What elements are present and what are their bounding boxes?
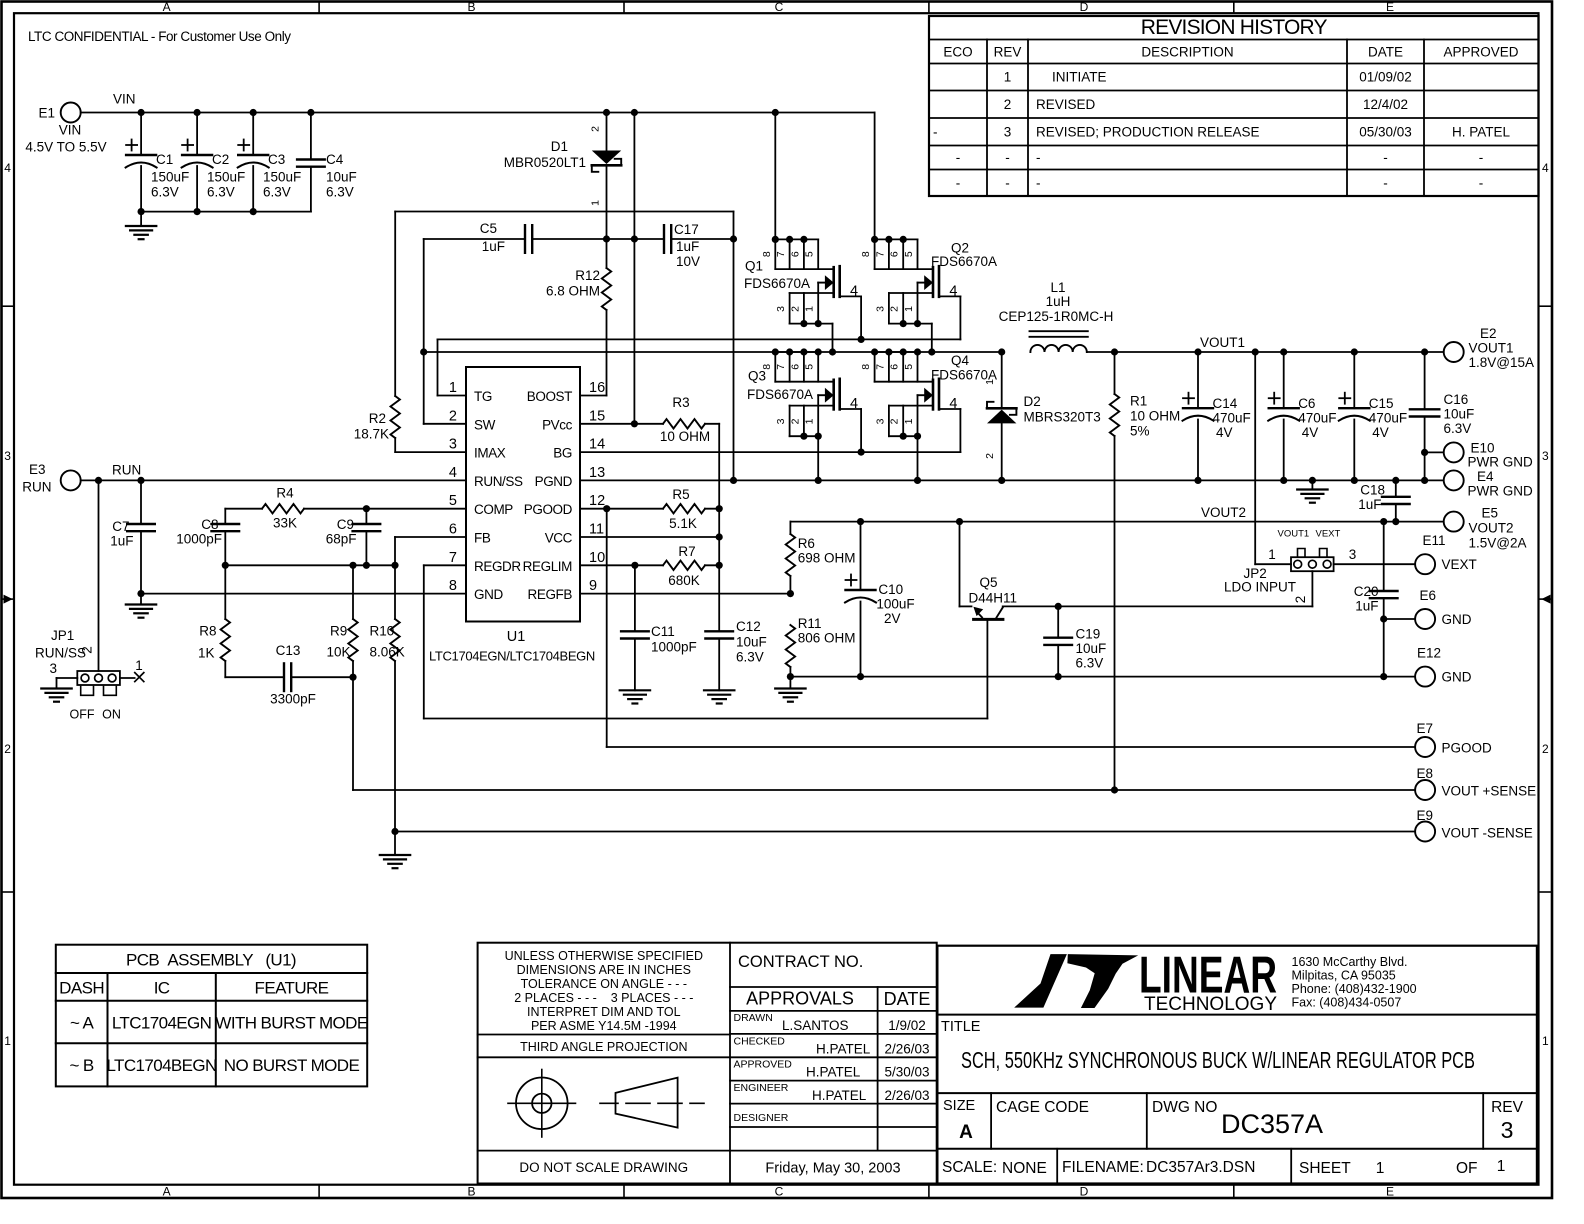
svg-text:C16: C16 <box>1444 392 1469 407</box>
capacitor C1 <box>126 113 190 212</box>
svg-text:DC357A: DC357A <box>1221 1109 1323 1139</box>
svg-text:DRAWN: DRAWN <box>734 1012 773 1024</box>
svg-text:R12: R12 <box>575 268 600 283</box>
svg-text:-: - <box>1479 150 1484 165</box>
svg-text:E: E <box>1386 1185 1394 1199</box>
node SW junctions <box>772 348 936 355</box>
svg-text:A: A <box>959 1122 973 1143</box>
svg-text:C20: C20 <box>1354 584 1379 599</box>
svg-text:C6: C6 <box>1298 396 1315 411</box>
svg-text:DESIGNER: DESIGNER <box>734 1112 789 1124</box>
svg-text:C19: C19 <box>1076 627 1101 642</box>
svg-text:FDS6670A: FDS6670A <box>747 387 813 402</box>
capacitor C14 <box>1183 352 1251 480</box>
svg-text:1uF: 1uF <box>110 534 133 549</box>
svg-text:2: 2 <box>984 453 996 459</box>
svg-text:E3: E3 <box>29 462 46 477</box>
svg-text:GND: GND <box>1442 612 1472 627</box>
svg-text:RUN: RUN <box>22 480 51 495</box>
connector E5 VOUT2 <box>1444 506 1527 551</box>
connector E8 VOUT +SENSE <box>1415 766 1536 800</box>
svg-text:VOUT2: VOUT2 <box>1201 505 1246 520</box>
svg-text:DO NOT SCALE DRAWING: DO NOT SCALE DRAWING <box>519 1160 688 1175</box>
svg-text:1uF: 1uF <box>1355 599 1378 614</box>
capacitor C2 <box>182 113 246 212</box>
ground C11 <box>620 689 650 691</box>
svg-text:RUN/SS: RUN/SS <box>35 646 86 661</box>
svg-text:THIRD ANGLE PROJECTION: THIRD ANGLE PROJECTION <box>520 1040 687 1054</box>
wire JP2 pin 1 to VOUT1 <box>1255 352 1291 564</box>
svg-text:C: C <box>775 0 784 14</box>
svg-text:E2: E2 <box>1480 326 1497 341</box>
svg-text:D: D <box>1080 1185 1089 1199</box>
wire IMAX top link <box>395 211 733 213</box>
svg-text:CEP125-1R0MC-H: CEP125-1R0MC-H <box>999 309 1114 324</box>
svg-text:~ A: ~ A <box>70 1014 95 1033</box>
svg-text:FDS6670A: FDS6670A <box>931 254 997 269</box>
svg-text:470uF: 470uF <box>1213 411 1251 426</box>
wire PGOOD to E7 <box>607 509 1415 747</box>
svg-text:680K: 680K <box>668 573 700 588</box>
svg-text:RUN: RUN <box>112 463 141 478</box>
svg-text:CAGE CODE: CAGE CODE <box>996 1099 1089 1116</box>
svg-text:4: 4 <box>949 396 957 412</box>
svg-text:RUN/SS: RUN/SS <box>474 474 523 489</box>
svg-text:INTERPRET DIM AND TOL: INTERPRET DIM AND TOL <box>527 1005 681 1019</box>
svg-text:LTC1704EGN/LTC1704BEGN: LTC1704EGN/LTC1704BEGN <box>429 649 595 664</box>
svg-text:D2: D2 <box>1024 394 1041 409</box>
svg-text:VIN: VIN <box>59 123 82 138</box>
svg-text:C3: C3 <box>268 152 285 167</box>
node VIN junctions <box>138 109 779 116</box>
svg-text:MBR0520LT1: MBR0520LT1 <box>504 155 586 170</box>
svg-text:R5: R5 <box>672 487 689 502</box>
svg-text:DATE: DATE <box>884 989 931 1009</box>
svg-text:5: 5 <box>804 364 816 370</box>
svg-text:10uF: 10uF <box>736 635 767 650</box>
svg-text:6.3V: 6.3V <box>1444 421 1472 436</box>
svg-text:150uF: 150uF <box>263 170 301 185</box>
svg-text:150uF: 150uF <box>207 170 245 185</box>
svg-text:VOUT1: VOUT1 <box>1469 341 1514 356</box>
svg-text:COMP: COMP <box>474 502 513 517</box>
svg-text:100uF: 100uF <box>876 597 914 612</box>
size cage dwg rev cells <box>943 1098 1524 1143</box>
svg-text:1.5V@2A: 1.5V@2A <box>1469 536 1527 551</box>
svg-text:PGND: PGND <box>535 474 573 489</box>
jumper option labels OFF ON <box>70 687 121 722</box>
svg-text:D: D <box>1080 0 1089 14</box>
wire VOUT1 bus <box>1087 335 1444 356</box>
wire JP2 pin 3 to E11 <box>1334 547 1416 564</box>
svg-text:VIN: VIN <box>113 92 136 107</box>
svg-text:1: 1 <box>1004 70 1012 85</box>
svg-text:2: 2 <box>889 418 901 424</box>
connector E9 VOUT -SENSE <box>1415 808 1533 842</box>
svg-text:E5: E5 <box>1482 506 1499 521</box>
wire C17 to PGND <box>733 212 735 481</box>
svg-text:LTC1704EGN: LTC1704EGN <box>112 1014 212 1033</box>
inductor L1 CEP125-1R0MC-H <box>999 280 1114 352</box>
svg-text:-: - <box>1383 150 1388 165</box>
svg-text:LTC1704BEGN: LTC1704BEGN <box>106 1056 216 1075</box>
svg-text:R1: R1 <box>1130 394 1147 409</box>
svg-text:NO BURST MODE: NO BURST MODE <box>224 1056 360 1075</box>
svg-text:C12: C12 <box>736 619 761 634</box>
svg-text:1K: 1K <box>198 646 215 661</box>
svg-text:8: 8 <box>860 251 872 257</box>
capacitor C17 <box>664 222 737 269</box>
svg-text:REVISION HISTORY: REVISION HISTORY <box>1141 16 1328 39</box>
svg-text:10 OHM: 10 OHM <box>1130 409 1180 424</box>
wire VOUT +SENSE line <box>353 786 1415 793</box>
svg-text:4V: 4V <box>1372 425 1389 440</box>
resistor R8 <box>198 565 230 677</box>
svg-text:3: 3 <box>1004 124 1012 139</box>
svg-text:4: 4 <box>949 283 957 299</box>
svg-text:01/09/02: 01/09/02 <box>1359 70 1412 85</box>
wire JP2 pin 2 <box>1293 571 1312 606</box>
company address <box>1292 955 1417 1010</box>
svg-text:6.8 OHM: 6.8 OHM <box>546 284 600 299</box>
tolerance block <box>478 943 937 1184</box>
svg-text:C8: C8 <box>201 517 218 532</box>
svg-text:-: - <box>1005 150 1010 165</box>
svg-text:-: - <box>1036 175 1041 190</box>
svg-text:2/26/03: 2/26/03 <box>884 1088 929 1103</box>
svg-text:1: 1 <box>1497 1158 1506 1175</box>
svg-text:10: 10 <box>589 550 605 566</box>
svg-text:1: 1 <box>449 380 457 396</box>
capacitor C15 <box>1339 352 1407 480</box>
connector E3 RUN <box>22 462 80 495</box>
svg-text:APPROVED: APPROVED <box>1443 45 1518 60</box>
svg-text:ON: ON <box>102 708 121 722</box>
ground input caps <box>126 212 156 240</box>
svg-text:2/26/03: 2/26/03 <box>884 1042 929 1057</box>
svg-text:VEXT: VEXT <box>1442 557 1477 572</box>
transistor Q2 FDS6670A <box>860 236 997 352</box>
capacitor C10 <box>845 522 915 677</box>
svg-text:7: 7 <box>775 364 787 370</box>
svg-text:8: 8 <box>449 578 457 594</box>
svg-text:TOLERANCE ON ANGLE - - -: TOLERANCE ON ANGLE - - - <box>521 977 687 991</box>
svg-text:-: - <box>1036 150 1041 165</box>
svg-text:2: 2 <box>80 646 95 654</box>
svg-text:1uF: 1uF <box>1358 497 1381 512</box>
svg-text:LTC CONFIDENTIAL - For Custome: LTC CONFIDENTIAL - For Customer Use Only <box>28 29 291 44</box>
connector E1 VIN <box>25 92 135 155</box>
svg-text:1: 1 <box>4 1034 11 1048</box>
jumper JP1 RUN/SS <box>35 628 120 685</box>
svg-text:9: 9 <box>589 578 597 594</box>
wire PVcc <box>580 423 663 425</box>
svg-text:VCC: VCC <box>545 531 573 546</box>
svg-text:1: 1 <box>804 306 816 312</box>
svg-text:E1: E1 <box>38 106 55 121</box>
jumper JP2 LDO INPUT <box>1224 557 1334 594</box>
svg-text:2V: 2V <box>884 611 901 626</box>
resistor R11 <box>786 616 856 677</box>
svg-text:SHEET: SHEET <box>1299 1160 1351 1177</box>
svg-text:E9: E9 <box>1417 808 1434 823</box>
svg-text:1/9/02: 1/9/02 <box>888 1018 926 1033</box>
svg-text:SCALE:: SCALE: <box>942 1159 997 1176</box>
svg-text:SW: SW <box>474 417 496 432</box>
node LDO input junction <box>1055 603 1062 610</box>
svg-text:PGOOD: PGOOD <box>1442 741 1493 756</box>
svg-text:C1: C1 <box>156 152 173 167</box>
node SW D2 junction <box>998 348 1005 355</box>
capacitor C4 <box>297 113 357 212</box>
svg-text:R9: R9 <box>330 624 347 639</box>
svg-text:10V: 10V <box>676 254 700 269</box>
svg-text:8: 8 <box>761 251 773 257</box>
svg-text:13: 13 <box>589 465 605 481</box>
title block <box>937 946 1537 1184</box>
wire input caps bottom <box>138 208 311 215</box>
svg-text:FEATURE: FEATURE <box>255 979 329 998</box>
capacitor C11 <box>621 565 697 690</box>
connector E10 PWR GND <box>1425 441 1533 470</box>
svg-text:A: A <box>163 1185 171 1199</box>
ground C7 <box>126 594 156 618</box>
svg-text:L1: L1 <box>1050 280 1065 295</box>
wire FB divider node <box>222 562 399 569</box>
svg-text:C: C <box>775 1185 784 1199</box>
svg-text:1: 1 <box>984 379 996 385</box>
connector E7 PGOOD <box>1415 721 1492 757</box>
svg-text:C14: C14 <box>1213 396 1238 411</box>
svg-text:2: 2 <box>449 408 457 424</box>
svg-text:6.3V: 6.3V <box>326 185 354 200</box>
svg-text:1.8V@15A: 1.8V@15A <box>1469 355 1535 370</box>
svg-text:D1: D1 <box>551 139 568 154</box>
transistor Q1 FDS6670A <box>744 236 861 352</box>
svg-text:REGLIM: REGLIM <box>523 559 573 574</box>
wire PGOOD <box>580 505 663 512</box>
transistor Q3 FDS6670A <box>747 352 861 480</box>
wire VCC pin <box>580 536 719 538</box>
svg-text:DC357Ar3.DSN: DC357Ar3.DSN <box>1146 1159 1255 1176</box>
svg-text:4V: 4V <box>1216 425 1233 440</box>
svg-text:5: 5 <box>449 493 457 509</box>
svg-text:B: B <box>467 1185 475 1199</box>
svg-text:15: 15 <box>589 408 605 424</box>
revision history table <box>929 16 1539 196</box>
ground C12 <box>704 689 734 691</box>
svg-text:5: 5 <box>903 251 915 257</box>
svg-text:DESCRIPTION: DESCRIPTION <box>1141 45 1233 60</box>
svg-text:VOUT1: VOUT1 <box>1278 529 1310 540</box>
svg-text:C2: C2 <box>212 152 229 167</box>
svg-text:TITLE: TITLE <box>941 1019 981 1035</box>
approvals block <box>730 953 937 1177</box>
wire VOUT2 bus <box>790 505 1443 525</box>
connector E4 PWR GND <box>1444 469 1533 499</box>
svg-text:2: 2 <box>590 126 602 132</box>
svg-text:L.SANTOS: L.SANTOS <box>782 1018 849 1033</box>
capacitor C9 <box>326 509 380 566</box>
svg-text:6.3V: 6.3V <box>151 185 179 200</box>
capacitor C16 <box>1410 352 1474 480</box>
svg-text:FDS6670A: FDS6670A <box>744 276 810 291</box>
svg-text:6.3V: 6.3V <box>736 650 764 665</box>
ground JP1 <box>41 687 71 689</box>
svg-text:H.PATEL: H.PATEL <box>812 1088 867 1103</box>
svg-text:PWR GND: PWR GND <box>1468 484 1533 499</box>
svg-text:4: 4 <box>850 283 858 299</box>
svg-text:E4: E4 <box>1477 469 1494 484</box>
svg-text:BG: BG <box>553 446 572 461</box>
svg-text:2: 2 <box>889 306 901 312</box>
svg-text:6.3V: 6.3V <box>207 185 235 200</box>
svg-text:REGFB: REGFB <box>527 587 572 602</box>
svg-text:DWG NO: DWG NO <box>1152 1099 1217 1116</box>
wire PGND bus <box>580 477 1444 484</box>
svg-text:Friday, May 30, 2003: Friday, May 30, 2003 <box>765 1161 900 1177</box>
svg-text:5.1K: 5.1K <box>669 516 697 531</box>
connector E11 VEXT <box>1415 533 1477 574</box>
svg-text:1: 1 <box>804 418 816 424</box>
svg-text:1: 1 <box>1376 1160 1385 1177</box>
wire FB jog <box>395 537 466 565</box>
wire COMP net <box>363 505 466 512</box>
svg-text:2: 2 <box>1293 596 1308 604</box>
wire bottom gnd segment <box>787 673 1387 680</box>
svg-text:4: 4 <box>449 465 457 481</box>
svg-text:Fax: (408)434-0507: Fax: (408)434-0507 <box>1292 996 1402 1010</box>
svg-text:1000pF: 1000pF <box>176 532 222 547</box>
svg-text:APPROVALS: APPROVALS <box>746 989 854 1009</box>
wire VOUT -SENSE line <box>391 828 1415 835</box>
svg-text:12: 12 <box>589 493 605 509</box>
svg-text:LDO INPUT: LDO INPUT <box>1224 580 1296 595</box>
svg-text:10uF: 10uF <box>1076 641 1107 656</box>
svg-text:MBRS320T3: MBRS320T3 <box>1024 410 1101 425</box>
transistor Q4 FDS6670A <box>860 352 997 480</box>
svg-text:TG: TG <box>474 389 492 404</box>
svg-text:6: 6 <box>789 364 801 370</box>
svg-text:Milpitas, CA 95035: Milpitas, CA 95035 <box>1292 969 1396 983</box>
svg-text:-: - <box>933 124 938 139</box>
svg-text:C18: C18 <box>1360 483 1385 498</box>
wire JP1 pin 2 to RUN <box>80 480 99 671</box>
svg-text:1000pF: 1000pF <box>651 640 697 655</box>
svg-text:7: 7 <box>874 364 886 370</box>
svg-text:-: - <box>1005 175 1010 190</box>
svg-text:GND: GND <box>1442 670 1472 685</box>
svg-text:5%: 5% <box>1130 424 1150 439</box>
wire BG net <box>580 449 960 456</box>
svg-text:VOUT1: VOUT1 <box>1200 335 1245 350</box>
svg-text:2: 2 <box>4 742 11 756</box>
svg-text:R6: R6 <box>798 536 815 551</box>
PCB assembly table <box>56 945 368 1087</box>
svg-text:C9: C9 <box>337 517 354 532</box>
svg-text:-: - <box>956 150 961 165</box>
svg-text:3: 3 <box>775 418 787 424</box>
capacitor C7 <box>110 480 155 593</box>
svg-text:Q1: Q1 <box>745 259 763 274</box>
svg-text:E6: E6 <box>1420 588 1437 603</box>
svg-text:R11: R11 <box>798 616 822 631</box>
svg-text:CONTRACT NO.: CONTRACT NO. <box>738 953 863 971</box>
svg-text:05/30/03: 05/30/03 <box>1359 124 1412 139</box>
svg-text:BOOST: BOOST <box>527 389 572 404</box>
svg-text:REGDR: REGDR <box>474 559 521 574</box>
right border center arrow <box>1541 595 1550 604</box>
svg-text:33K: 33K <box>273 516 297 531</box>
ground R10 sense <box>380 832 410 869</box>
svg-text:E11: E11 <box>1423 533 1446 548</box>
svg-text:ECO: ECO <box>943 45 972 60</box>
svg-text:PWR GND: PWR GND <box>1468 455 1533 470</box>
capacitor C3 <box>238 113 302 212</box>
svg-text:5: 5 <box>903 364 915 370</box>
svg-text:10uF: 10uF <box>1444 407 1475 422</box>
svg-text:470uF: 470uF <box>1369 411 1407 426</box>
svg-text:3: 3 <box>1542 449 1549 463</box>
svg-text:16: 16 <box>589 380 605 396</box>
op-amp U1 LTC1704EGN <box>429 367 605 664</box>
svg-text:14: 14 <box>589 437 605 453</box>
svg-text:INITIATE: INITIATE <box>1052 70 1107 85</box>
svg-text:U1: U1 <box>507 629 526 645</box>
svg-text:1630 McCarthy Blvd.: 1630 McCarthy Blvd. <box>1292 955 1408 969</box>
svg-text:PVcc: PVcc <box>542 417 573 432</box>
svg-text:E8: E8 <box>1417 766 1434 781</box>
svg-text:2: 2 <box>1542 742 1549 756</box>
svg-text:-: - <box>1479 175 1484 190</box>
svg-text:C4: C4 <box>326 152 344 167</box>
wire REGFB <box>580 590 794 597</box>
svg-text:FILENAME:: FILENAME: <box>1062 1159 1144 1176</box>
svg-text:OFF: OFF <box>70 708 95 722</box>
svg-text:NONE: NONE <box>1002 1160 1047 1177</box>
third angle projection symbol <box>508 1070 704 1138</box>
svg-text:6: 6 <box>789 251 801 257</box>
svg-text:11: 11 <box>589 522 604 538</box>
svg-text:470uF: 470uF <box>1298 411 1336 426</box>
svg-text:3: 3 <box>874 306 886 312</box>
ground R11 <box>775 677 805 702</box>
svg-text:7: 7 <box>449 550 457 566</box>
svg-text:UNLESS OTHERWISE SPECIFIED: UNLESS OTHERWISE SPECIFIED <box>505 949 703 963</box>
svg-text:FB: FB <box>474 531 491 546</box>
wire VIN bus <box>81 112 875 114</box>
wire GND line U1 pin8 <box>137 590 466 597</box>
svg-text:WITH BURST MODE: WITH BURST MODE <box>215 1014 367 1033</box>
transistor Q5 D44H11 <box>960 522 1313 719</box>
left border center arrow <box>4 595 13 604</box>
svg-text:REVISED; PRODUCTION RELEASE: REVISED; PRODUCTION RELEASE <box>1036 124 1260 139</box>
svg-text:6: 6 <box>889 251 901 257</box>
svg-text:PGOOD: PGOOD <box>524 502 573 517</box>
wire JP1 pin 3 to ground <box>49 661 77 689</box>
capacitor C5 <box>424 221 607 254</box>
wire VCC rail <box>716 424 723 632</box>
svg-text:6: 6 <box>449 522 457 538</box>
wire JP1 pin 1 open <box>120 658 144 682</box>
svg-text:1uF: 1uF <box>676 239 699 254</box>
svg-text:2 PLACES - - - 3 PLACES - -: 2 PLACES - - - 3 PLACES - - - <box>514 991 693 1005</box>
svg-text:6.3V: 6.3V <box>1076 656 1104 671</box>
title text <box>941 1019 1475 1073</box>
svg-text:VOUT2: VOUT2 <box>1469 521 1514 536</box>
wire R9 to sense <box>352 677 354 790</box>
connector E2 VOUT1 <box>1444 326 1534 370</box>
